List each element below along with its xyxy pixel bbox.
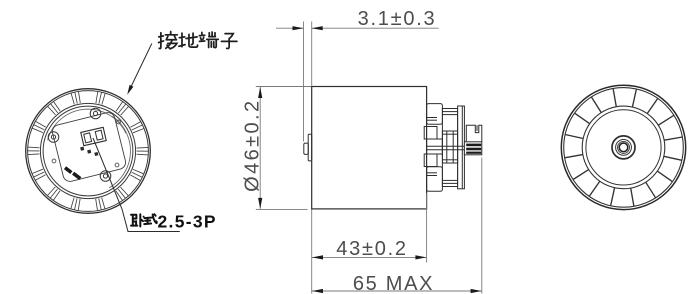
svg-text:3.1±0.3: 3.1±0.3: [358, 8, 437, 30]
svg-text:2.5-3P: 2.5-3P: [158, 212, 217, 232]
svg-text:Ø46±0.2: Ø46±0.2: [241, 99, 263, 192]
svg-text:43±0.2: 43±0.2: [336, 238, 408, 260]
svg-text:65 MAX: 65 MAX: [353, 273, 434, 294]
